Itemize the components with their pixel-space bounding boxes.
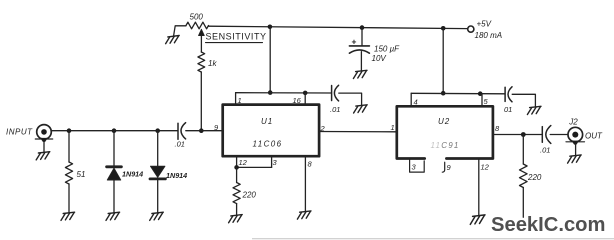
node pin 16 [303,91,308,96]
svg-text:11C91: 11C91 [431,141,460,150]
svg-text:10V: 10V [372,54,387,63]
svg-text:220: 220 [527,173,542,182]
wire node to R220 out [522,135,524,165]
wire cap to J2 [550,134,567,136]
wire pin 5 stub [481,94,483,106]
IC U1 box [223,105,319,157]
node U1 pin rail / vcc drop [268,90,273,95]
terminal +5V open circle [468,26,474,32]
ground R220 U1 [229,215,243,223]
svg-text:51: 51 [77,170,86,179]
diode D2 1N914 (filled triangle, cathode bar bottom) [151,166,165,177]
ground R51 [61,212,75,220]
wire U2 pin 3 bent stub [410,160,425,173]
potentiometer R 500 body [186,22,209,29]
wire D2 to ground [157,179,159,212]
svg-text:+5V: +5V [477,20,492,29]
resistor R 220 (U1) [233,183,240,204]
svg-text:5: 5 [484,97,489,106]
svg-text:+: + [352,37,357,47]
ground D2 [150,212,164,220]
svg-text:.01: .01 [175,140,185,149]
wire U2 top pin rail (pins 4,5) [411,92,505,95]
svg-text:150 µF: 150 µF [374,44,400,53]
wire U2 vcc drop from rail [442,28,444,93]
wire U2 pin 12 to ground [478,160,480,215]
wire input line J1 to coupling cap [51,130,178,132]
svg-text:3: 3 [412,163,417,172]
svg-text:SeekIC.com: SeekIC.com [491,214,605,236]
diode D1 1N914 (cathode bar top, filled triangle) [107,165,122,168]
wire node to R220 [236,167,238,182]
wire pin 16 stub [304,93,306,105]
node pin8 / 220 [521,132,526,137]
svg-text:180 mA: 180 mA [475,31,503,40]
ground U1 pin 8 [297,211,311,219]
svg-text:OUT: OUT [585,132,603,141]
wire U1 pin 3 stub [271,156,273,167]
svg-text:1N914: 1N914 [166,171,187,180]
svg-text:1k: 1k [208,59,217,68]
ground U2 pin 12 [470,215,485,225]
resistor R 51 [65,162,72,184]
wire U2 pin 8 to output cap [493,134,542,136]
wire top supply rail from potentiometer to +5V terminal [209,26,468,28]
ground U1 bypass cap [354,105,368,113]
svg-text:12: 12 [481,162,490,171]
wire U1 pin 2 to U2 pin 1 [319,131,396,133]
wire U1 top pin rail (pins 1,16) [236,92,332,94]
wire pot left end to ground [174,26,186,36]
ground 150uF [353,70,367,78]
capacitor C .01 input coupling [177,123,179,139]
wire node to diode D1 [113,131,115,166]
svg-text:U2: U2 [438,117,450,126]
wire U1 pin 12 stub [236,156,238,167]
wire 150uF to ground [360,52,362,71]
capacitor C .01 at U1 pin 16 [331,86,333,101]
capacitor C .01 output coupling [541,127,543,143]
pot wiper arrow [200,35,202,53]
wire node to R 51 [68,131,70,162]
wire U1 vcc drop from rail to pin rail [269,27,271,93]
ground pot left [166,36,180,44]
resistor R 220 (output) [520,164,528,188]
wire pin 3 to pin 12 [237,166,272,168]
capacitor C 150uF 10V polarized [349,45,369,47]
svg-text:U1: U1 [261,117,273,126]
pin 9 open stub U2 [442,162,444,172]
ground J2 [568,155,582,163]
wire 1k to input line junction [200,72,202,131]
ground D1 [106,212,120,220]
svg-text:11C06: 11C06 [253,140,283,149]
wire D1 to ground [113,180,115,212]
wire J1 shell to ground [43,142,45,152]
svg-text:220: 220 [242,190,257,199]
wire pin 4 stub [410,93,412,105]
svg-text:INPUT: INPUT [6,127,33,136]
wire pin 1 stub [235,93,237,105]
svg-text:500: 500 [190,13,204,22]
svg-text:1: 1 [391,123,395,132]
wire R220 out to ground (under watermark) [522,188,524,218]
wire R220 to ground [236,204,238,215]
node input/D1 [112,128,117,133]
node 1k / input line [199,128,204,133]
node pin 5 [478,91,483,96]
node input/51 ohm [67,128,72,133]
ground U2 bypass cap [527,106,541,114]
svg-text:.01: .01 [330,105,340,114]
wire cap to ground corner [512,94,535,106]
node U2 pin rail / vcc drop [441,91,446,96]
wire R51 to ground [68,184,70,212]
wire cap to ground corner [339,93,362,105]
wire node to diode D2 [157,131,159,167]
IC U2 box (bottom edge broken) [397,106,493,158]
svg-text:9: 9 [447,163,452,172]
node rail to U1 vcc drop [268,25,273,30]
svg-text:3: 3 [273,158,278,167]
node rail to 150uF cap [360,25,365,30]
underline sensitivity [206,42,263,44]
svg-text:12: 12 [239,158,248,167]
wire J2 shell to ground [575,144,577,155]
connector J2 output jack [568,127,583,142]
svg-text:SENSITIVITY: SENSITIVITY [206,32,267,42]
svg-text:J2: J2 [568,117,578,126]
node input/D2 [155,128,160,133]
node pin12/220 [234,165,239,170]
svg-text:8: 8 [308,159,313,168]
svg-text:.01: .01 [540,146,550,155]
wire 150uF drop from rail [361,28,363,46]
resistor R 1k [198,52,205,72]
svg-text:8: 8 [495,124,500,133]
svg-text:1N914: 1N914 [122,169,143,178]
wire U1 pin 8 stub to ground [304,156,306,211]
node rail to U2 vcc drop [441,26,446,31]
wire cap to U1 pin 9 [186,130,223,132]
connector J1 input jack [37,125,52,140]
ground J1 [36,152,50,160]
svg-text:01: 01 [504,105,512,114]
capacitor C .01 at U2 pin 5 [504,87,506,101]
bottom edge scan line [252,238,614,240]
